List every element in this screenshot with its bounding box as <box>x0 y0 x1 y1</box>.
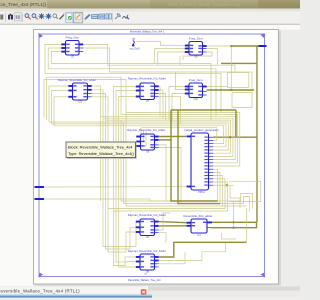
wire FG3 out2 thick <box>207 89 254 91</box>
wire FA4 out4 <box>159 233 166 243</box>
Rayman_Reversible_Ful_Adder U8 <box>128 249 166 273</box>
toolbar blue icon 4 <box>106 14 112 19</box>
toolbar page-check active icon <box>65 13 73 23</box>
wire FA5 in3 <box>119 124 136 267</box>
svg-text:Rayman_Reversible_Ful_Adder: Rayman_Reversible_Ful_Adder <box>127 128 165 132</box>
toolbar zoom-star icon 2 <box>46 13 52 19</box>
partial_product_generation PPG1 <box>184 128 219 194</box>
toolbar probe icon <box>122 15 128 19</box>
svg-text:Freq_Gen: Freq_Gen <box>189 78 203 82</box>
wire FA1 wrap inner <box>47 77 122 119</box>
title bar <box>0 0 300 9</box>
schematic sheet <box>34 30 279 285</box>
wire FA1 out3 down <box>92 94 106 121</box>
wire corner r1 <box>218 194 253 209</box>
wire FA5 out2 <box>159 243 226 261</box>
wire band3 l3 <box>126 113 223 207</box>
Rayman_Reversible_Ful_Adder U6 <box>128 213 166 239</box>
wire to FA3 in2 <box>136 130 143 142</box>
wire FA1 out4 down <box>92 97 108 122</box>
wire port2 to band3 <box>44 199 218 201</box>
wire FA1 in3 <box>54 97 68 126</box>
svg-text:eversible_Wallace_Tree_4x4 (RT: eversible_Wallace_Tree_4x4 (RTL1) <box>1 288 81 293</box>
wire trunk x236 <box>235 110 237 137</box>
toolbar zoom-in icon <box>25 14 31 20</box>
frame corner arrows <box>39 34 265 277</box>
wire net clk_out b <box>231 45 258 47</box>
wire FA2 in3 down <box>119 97 136 124</box>
svg-text:ce_Tree_4x4 (RTL1)]: ce_Tree_4x4 (RTL1)] <box>1 2 46 8</box>
toolbar blue icon 1 <box>85 14 91 20</box>
wire net to FG2 pin3 <box>158 52 185 65</box>
wire FG3 out1 <box>207 86 228 88</box>
wire band2 l4 <box>103 118 233 156</box>
junction R4A return <box>233 227 235 229</box>
wire FA1 in1 <box>49 86 68 122</box>
wire net to FG2 pin2 <box>155 49 185 64</box>
wire band2 l6 <box>49 122 228 150</box>
wire FA4 in3 loop <box>108 122 136 252</box>
wire FA2 out2 down <box>159 90 163 118</box>
wire FA2 in2 down <box>116 91 136 121</box>
wire loop below FG2 <box>180 49 217 66</box>
wire band2 l5 <box>106 120 231 153</box>
junction at clk_out <box>230 45 232 47</box>
junction ppg out0 <box>229 136 231 138</box>
wire net n2 FG1 pin2 loop <box>48 48 216 116</box>
svg-text:Rayman_Reversible_Ful_Adder: Rayman_Reversible_Ful_Adder <box>58 78 96 82</box>
node rst_Gn0 <box>130 38 140 51</box>
wire FA3 out4 down <box>159 148 181 204</box>
toolbar binoculars icon <box>8 14 13 20</box>
wire FA2 out1 down <box>159 86 160 116</box>
wire net rst to FG2 clk <box>137 42 185 46</box>
svg-text:Type: Reversible_Wallace_Tree_: Type: Reversible_Wallace_Tree_4x4() <box>68 151 135 156</box>
junction R4A bus <box>233 221 235 223</box>
wire band3 l2 <box>124 122 221 204</box>
Rayman_Reversible_Ful_Adder U5 <box>127 128 165 153</box>
wire FA4 out2 to R4A <box>159 225 187 227</box>
output port top right <box>259 45 267 47</box>
wire FG3 in1 down <box>169 87 186 121</box>
wire loop below FG2 inner <box>183 52 212 60</box>
tab close button <box>141 289 147 295</box>
wire FA3 out2 to trunk <box>159 139 171 141</box>
menu strip <box>0 9 300 12</box>
toolbar icon group: find <box>0 15 3 20</box>
active tab underline <box>0 295 152 298</box>
wire band2 l7 <box>52 124 227 147</box>
wire FG3 loop box1 <box>228 73 249 88</box>
input port 2 <box>35 198 45 200</box>
wire band2 l3 <box>101 116 236 159</box>
wire ppg out15 <box>213 185 240 208</box>
wire net n1 FG1 pin1 loop <box>45 44 221 112</box>
wire vertical x231 <box>230 46 232 90</box>
toolbar pressed icon <box>73 12 82 23</box>
wire loop below R4A <box>221 233 236 239</box>
svg-text:Reversible_Wallace_Tree_4x4 1: Reversible_Wallace_Tree_4x4 1 <box>130 30 165 33</box>
wire corner r2 <box>220 197 250 212</box>
wire band3 l4 <box>108 179 225 209</box>
svg-text:rst_Gn0: rst_Gn0 <box>130 47 140 51</box>
wire FA1 wrap outer <box>44 80 126 118</box>
wire FA4 in1 loop <box>103 118 136 246</box>
wire trunk y110 <box>171 109 236 111</box>
tab bar <box>0 286 300 300</box>
wire trunk x171 <box>171 110 218 201</box>
toolbar zoom-out icon <box>32 14 38 20</box>
wire FA5 in1 loop <box>114 117 136 266</box>
wire band2 l9 <box>141 128 217 141</box>
wire band2 l2 <box>121 114 238 162</box>
wire FA3 out3 down <box>159 145 166 201</box>
Freq_Gen U9 <box>185 37 207 59</box>
svg-text:PPG1: PPG1 <box>198 191 205 194</box>
Freq_Gen U10 <box>185 78 207 101</box>
wire port1 to ppg <box>44 186 186 188</box>
wire FA5 in2 loop <box>116 120 136 262</box>
junction ppg out15 row <box>226 184 228 186</box>
wire FA4 out3 <box>159 213 170 230</box>
svg-text:Rayman_Reversible_Ful_Adder: Rayman_Reversible_Ful_Adder <box>128 249 166 253</box>
wire vertical x233 <box>233 202 235 228</box>
wire net n5 FG1 out2 <box>83 48 252 91</box>
wire corner r3 <box>223 205 247 207</box>
toolbar blue icon 2 <box>92 15 98 19</box>
toolbar blue icon 3 <box>99 14 105 19</box>
svg-text:partial_product_generation: partial_product_generation <box>184 128 219 132</box>
junction FG3 out2 <box>230 89 232 91</box>
wire FA2 in1 down <box>114 87 137 117</box>
toolbar binoculars disabled icon <box>14 13 21 21</box>
wire ppg pin15 stub <box>213 184 233 186</box>
toolbar <box>0 12 300 25</box>
svg-text:Reversible_4bit_adder: Reversible_4bit_adder <box>184 214 213 218</box>
Reversible_4bit_adder U4 <box>184 214 213 237</box>
wire vertical x246 <box>246 208 248 243</box>
wire FA1 in2 <box>52 91 69 124</box>
wire FA1 out1 down <box>92 86 101 201</box>
wire FA2 out3 down <box>159 94 166 121</box>
toolbar pen icon <box>59 14 64 20</box>
wire FA5 out3 <box>159 252 185 264</box>
wire band3 l5 <box>114 182 228 211</box>
input port 1 <box>35 186 45 188</box>
wire thick y63 tail <box>221 62 257 64</box>
svg-text:U10: U10 <box>194 98 199 101</box>
wire net n3 FG1 pin3 loop <box>51 52 211 120</box>
wire trunk x257 <box>256 46 258 222</box>
wire net n4 FG1 out1 <box>83 44 235 72</box>
wire FA1 out2 down <box>92 90 103 118</box>
wire ppg out0 thick <box>213 136 257 138</box>
wire band2 l1 <box>126 113 240 167</box>
wire FA5 out1 <box>159 242 247 257</box>
toolbar wrench icon <box>115 14 120 19</box>
wire FG3 in2 up <box>176 72 187 90</box>
wire net clk_out a <box>207 45 231 47</box>
wire loop right of ppg bottom <box>229 181 261 201</box>
wire FG3 in3 down <box>172 94 186 123</box>
wire trunk x178 <box>178 110 220 204</box>
wire FA2 out4 down <box>159 96 181 124</box>
wire band2 l8 <box>54 126 224 144</box>
svg-text:Rayman_Reversible_Ful_Adder: Rayman_Reversible_Ful_Adder <box>128 76 166 80</box>
wire to FA3 in3 <box>136 132 146 146</box>
svg-text:Rayman_Reversible_Ful_Adder: Rayman_Reversible_Ful_Adder <box>128 213 166 217</box>
svg-text:Freq_Gen: Freq_Gen <box>189 37 203 41</box>
svg-text:Block: Reversible_Wallace_Tree: Block: Reversible_Wallace_Tree_4x4 <box>68 144 133 149</box>
toolbar zoom-star icon 1 <box>39 13 45 19</box>
Freq_Gen U2a <box>61 36 83 59</box>
wire R4A out U-turn <box>211 222 257 227</box>
wire FA3 out1 to ppg <box>159 135 187 137</box>
svg-text:Reversible_Wallace_Tree_4x4: Reversible_Wallace_Tree_4x4 <box>128 279 161 282</box>
Rayman_Reversible_Ful_Adder U3 <box>58 78 96 104</box>
wire band3 l1 <box>121 120 218 201</box>
toolbar mag gray icon <box>53 14 58 19</box>
svg-text:Freq_Gen: Freq_Gen <box>65 36 79 40</box>
wire to FA3 in1 <box>136 128 141 137</box>
wire FG3 loop box2 <box>232 93 252 108</box>
sheet border frame <box>39 34 265 277</box>
wire FA4 out1 to R4A <box>159 222 187 223</box>
wire FA4 in2 loop <box>106 120 136 249</box>
Rayman_Reversible_Ful_Adder U7 <box>128 76 166 103</box>
tooltip Block Reversible_Wallace_Tree_4x4 <box>66 142 137 159</box>
